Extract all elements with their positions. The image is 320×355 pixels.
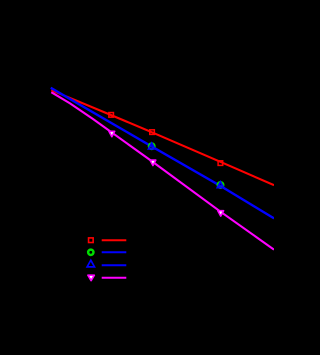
green circle marker 2 <box>218 182 224 188</box>
legend row 2: green circle marker <box>88 250 93 255</box>
legend row 3: blue line <box>102 264 127 266</box>
blue triangle marker 1 <box>148 143 155 149</box>
legend row 1: red square marker <box>89 238 94 243</box>
magenta down-triangle marker 3 <box>218 211 224 216</box>
legend row 1: red line <box>102 239 127 241</box>
magenta data line (series 4) <box>51 92 274 249</box>
legend row 4: magenta down-triangle marker <box>88 275 94 280</box>
magenta down-triangle marker 1 <box>109 131 115 136</box>
red square marker 3 <box>218 161 223 166</box>
red square marker 1 <box>109 113 114 118</box>
blue data line (series 3, blue triangles) <box>51 88 274 219</box>
blue triangle marker 2 <box>217 182 224 188</box>
magenta down-triangle marker 2 <box>150 160 156 165</box>
red data line (series 1) <box>51 90 274 185</box>
blue data line (series 2, green circles) <box>51 88 274 219</box>
red square marker 2 <box>150 130 155 135</box>
green circle marker 1 <box>149 143 155 149</box>
legend row 3: blue triangle marker <box>87 260 94 267</box>
legend row 2: blue line <box>102 251 127 253</box>
legend row 4: magenta line <box>102 277 127 279</box>
